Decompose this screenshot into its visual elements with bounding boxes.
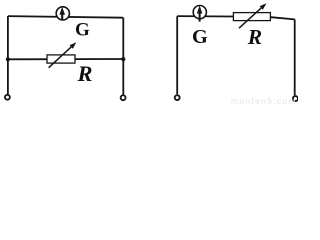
node: junction dot left (middle wire to left vertical) <box>6 57 10 61</box>
galvanometer needle arrow, left circuit <box>59 7 65 20</box>
wire: left circuit top horizontal <box>8 16 123 18</box>
terminal: right circuit left binding post <box>175 95 180 100</box>
wire: right circuit right vertical <box>294 19 296 95</box>
svg-text:R: R <box>247 25 262 49</box>
rheostat arrow (slider), right circuit <box>239 3 266 28</box>
svg-text:R: R <box>77 61 93 86</box>
terminal: left circuit right binding post <box>121 95 126 100</box>
wire: left circuit middle horizontal (through R) <box>8 58 123 60</box>
svg-text:G: G <box>192 26 208 48</box>
wire: left circuit left vertical <box>7 16 9 94</box>
resistor R (rheostat) body, left circuit <box>47 55 75 63</box>
wire: right circuit left vertical <box>176 16 178 94</box>
terminal: left circuit left binding post <box>5 95 10 100</box>
wire: left circuit right vertical <box>122 18 124 95</box>
svg-text:manfen5.com: manfen5.com <box>231 96 297 105</box>
resistor R (rheostat) body, right circuit <box>233 13 270 21</box>
svg-text:G: G <box>75 19 90 40</box>
wire: right circuit top horizontal (left part, through G) <box>177 15 233 17</box>
rheostat arrow (slider), left circuit <box>49 42 77 67</box>
galvanometer needle arrow, right circuit <box>197 6 203 22</box>
terminal: right circuit right binding post <box>293 96 298 101</box>
node: junction dot right (middle wire to right vertical) <box>121 57 125 61</box>
galvanometer G (meter circle), right circuit <box>193 6 206 19</box>
wire: right circuit top horizontal (rect to corner) <box>271 17 295 19</box>
galvanometer G (meter circle), left circuit <box>56 7 69 20</box>
